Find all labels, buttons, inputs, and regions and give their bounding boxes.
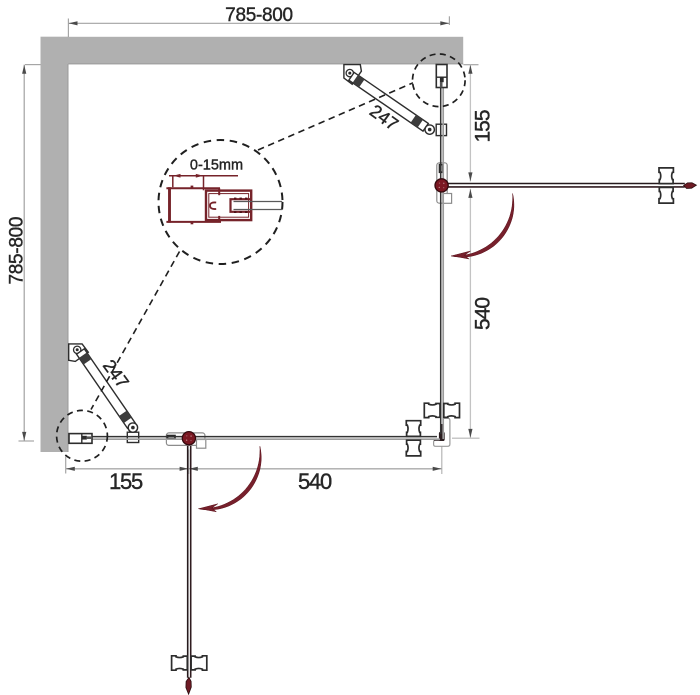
svg-text:540: 540 [298, 469, 332, 494]
dashed leader line to top-right hinge [258, 83, 413, 150]
handle closed bottom door [406, 421, 420, 456]
corner bracket bottom-right [434, 418, 450, 446]
wall profile section (C channel opening right) [166, 187, 220, 189]
wall top [41, 37, 464, 64]
wall profile top-right [436, 65, 447, 88]
wall left [41, 37, 69, 452]
pivot bracket right [437, 163, 452, 204]
clamp U inside [231, 199, 251, 212]
glass section lines exiting circle [234, 201, 283, 203]
dimension 785-800 top [68, 5, 449, 37]
support bar bottom-left [69, 344, 139, 443]
dimension 155 right [463, 65, 494, 182]
pivot bracket bottom [166, 433, 205, 448]
detail drawing inside big circle [166, 186, 251, 225]
dimension 785-800 left [7, 65, 41, 441]
svg-text:0-15mm: 0-15mm [190, 158, 243, 174]
open door right (rotated 90 out) [447, 183, 696, 189]
swing arc bottom door [198, 446, 261, 512]
handle open bottom door [172, 656, 207, 670]
dashed detail circle big [159, 140, 283, 264]
detail dim 0-15mm [169, 158, 243, 191]
handle open right door [659, 168, 673, 203]
svg-text:785-800: 785-800 [225, 5, 293, 26]
dashed leader line to bottom-left hinge [91, 252, 180, 410]
support bar top (wall to fixed panel) [344, 65, 447, 136]
fixed glass right (dark edge + gray shadow) [441, 88, 444, 440]
c-shaped seal clip [210, 202, 216, 209]
glass holder profile section [206, 191, 251, 221]
wall profile bottom-left [69, 434, 92, 444]
red pivot knobs [435, 179, 448, 192]
dimension 540 right [452, 189, 495, 438]
svg-text:155: 155 [472, 110, 495, 142]
dashed circle top-right hinge [413, 54, 466, 107]
handle closed right door [424, 403, 459, 417]
svg-text:155: 155 [109, 469, 143, 494]
fixed glass bottom [92, 437, 441, 440]
swing arc right door [451, 194, 514, 260]
dimension 155 bottom [66, 450, 189, 495]
svg-text:785-800: 785-800 [7, 217, 28, 285]
dashed circle bottom-left hinge [57, 410, 108, 461]
open door bottom (rotated 90 out) [186, 446, 191, 694]
dimension 540 bottom [189, 446, 442, 494]
svg-text:540: 540 [472, 298, 495, 330]
